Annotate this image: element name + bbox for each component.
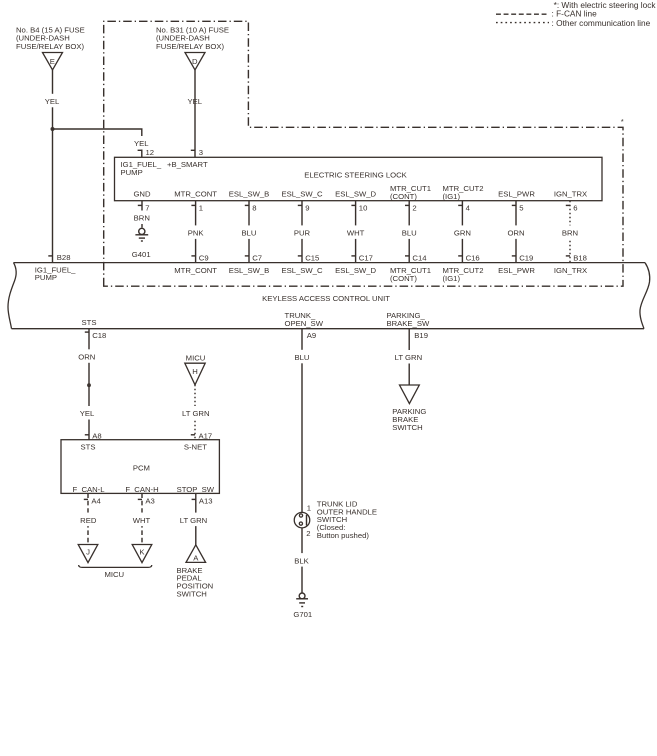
- svg-text:YEL: YEL: [45, 97, 60, 106]
- label PUR: [292, 225, 312, 239]
- connector triangle H: [185, 363, 205, 385]
- svg-text:GRN: GRN: [454, 229, 471, 238]
- keyless pin label TRUNK_OPEN_SW: [285, 311, 324, 328]
- svg-text:5: 5: [519, 203, 523, 212]
- keyless pin label MTR_CUT2 (IG1): [443, 266, 484, 283]
- svg-text:SWITCH: SWITCH: [177, 589, 207, 598]
- svg-text:(CONT): (CONT): [390, 192, 417, 201]
- label ORN: [77, 349, 98, 363]
- wire branch to ESL pin 12: [53, 129, 142, 157]
- connector C7 tick: [245, 255, 249, 257]
- svg-text:PUR: PUR: [294, 229, 311, 238]
- connector B18 tick: [566, 255, 570, 257]
- svg-text:MTR_CONT: MTR_CONT: [174, 189, 217, 198]
- svg-text:IGN_TRX: IGN_TRX: [554, 189, 587, 198]
- connector triangle K: [132, 545, 152, 563]
- wire F-CAN-L dashed A4 to J: [87, 493, 89, 544]
- svg-text:C17: C17: [359, 254, 373, 263]
- wire IGN_TRX pin 6 to B18 (dotted): [569, 201, 571, 263]
- wire STOP_SW A13 to brake pedal position switch: [195, 493, 197, 545]
- svg-text:B18: B18: [573, 254, 587, 263]
- connector A17 tick: [191, 434, 195, 436]
- wire GND pin 7: [141, 201, 143, 228]
- wire ESL_SW_B pin 8 to C7: [248, 201, 250, 263]
- svg-text:12: 12: [146, 148, 155, 157]
- svg-text:ESL_SW_B: ESL_SW_B: [229, 266, 270, 275]
- svg-text:BLU: BLU: [295, 353, 310, 362]
- svg-text:ESL_PWR: ESL_PWR: [498, 266, 535, 275]
- svg-text:KEYLESS ACCESS CONTROL UNIT: KEYLESS ACCESS CONTROL UNIT: [262, 294, 390, 303]
- label BLU: [400, 225, 418, 239]
- pin 4 tick: [458, 204, 462, 206]
- ground G401: [132, 228, 151, 259]
- svg-text:F_CAN-H: F_CAN-H: [125, 485, 158, 494]
- keyless box torn right edge: [640, 263, 650, 329]
- connector C17 tick: [351, 255, 355, 257]
- svg-text:10: 10: [359, 203, 368, 212]
- svg-text:BLU: BLU: [242, 229, 257, 238]
- svg-text:3: 3: [199, 148, 203, 157]
- label RED: [79, 513, 99, 527]
- connector triangle J: [78, 545, 98, 563]
- wire PARKING_BRAKE_SW B19 down: [408, 329, 410, 385]
- connector triangle A: [186, 545, 206, 563]
- label TRUNK LID OUTER HANDLE SWITCH: [317, 499, 377, 539]
- connector A13 tick: [192, 498, 196, 500]
- wire YEL from fuse D to ESL pin 3: [194, 70, 196, 157]
- splice dot: [87, 383, 91, 387]
- svg-text:C19: C19: [519, 254, 533, 263]
- svg-text:MICU: MICU: [104, 570, 124, 579]
- pin 9 tick: [298, 204, 302, 206]
- svg-text:B19: B19: [414, 331, 428, 340]
- op box: ELECTRIC STEERING LOCK unit: [115, 157, 603, 200]
- fuse E label: [16, 25, 85, 51]
- svg-text:(CONT): (CONT): [390, 274, 417, 283]
- svg-text:C9: C9: [199, 254, 209, 263]
- parking brake switch triangle: [400, 385, 420, 404]
- pin 8 tick: [245, 204, 249, 206]
- connector A4 tick: [84, 498, 88, 500]
- svg-text:2: 2: [306, 529, 310, 538]
- pin 1 tick: [191, 204, 195, 206]
- svg-text:F_CAN-L: F_CAN-L: [72, 485, 105, 494]
- svg-text:(IG1): (IG1): [443, 274, 461, 283]
- svg-text:STS: STS: [82, 318, 97, 327]
- svg-text:ELECTRIC STEERING LOCK: ELECTRIC STEERING LOCK: [304, 170, 407, 179]
- wire YEL from fuse E down to keyless B28: [52, 70, 54, 263]
- PCM box: [61, 440, 219, 494]
- svg-text:C14: C14: [412, 254, 427, 263]
- svg-text:YEL: YEL: [188, 97, 203, 106]
- svg-text:LT GRN: LT GRN: [182, 409, 209, 418]
- svg-text:K: K: [139, 548, 145, 557]
- svg-text:4: 4: [466, 203, 471, 212]
- svg-text:1: 1: [307, 503, 311, 512]
- svg-text:RED: RED: [80, 516, 97, 525]
- wire TRUNK_OPEN_SW A9 down to switch: [301, 329, 303, 513]
- svg-text:WHT: WHT: [347, 229, 365, 238]
- trunk lid outer handle switch: [294, 512, 310, 528]
- svg-text:STOP_SW: STOP_SW: [177, 485, 215, 494]
- svg-text:C15: C15: [305, 254, 319, 263]
- label YEL (fuse E wire): [43, 94, 61, 108]
- keyless box torn left edge: [8, 263, 16, 329]
- wire BLK from switch to G701: [301, 528, 303, 593]
- label YEL (branch wire): [132, 136, 150, 150]
- svg-text:: Other communication line: : Other communication line: [552, 18, 651, 28]
- svg-text:G401: G401: [132, 250, 151, 259]
- pin 3 tick: [191, 149, 195, 151]
- svg-text:SWITCH: SWITCH: [392, 423, 422, 432]
- keyless box bottom edge: [12, 328, 645, 330]
- pin 6 tick: [566, 204, 570, 206]
- svg-text:8: 8: [252, 203, 256, 212]
- wire STS C18 to PCM A8: [88, 329, 90, 440]
- svg-text:9: 9: [305, 203, 309, 212]
- label LT GRN: [178, 513, 209, 527]
- keyless pin label MTR_CUT1 (CONT): [390, 266, 431, 283]
- connector C14 tick: [405, 255, 409, 257]
- svg-text:BRAKE_SW: BRAKE_SW: [387, 319, 430, 328]
- label PNK: [186, 225, 205, 239]
- svg-text:D: D: [192, 57, 198, 66]
- label BLU: [240, 225, 258, 239]
- label GRN: [452, 225, 473, 239]
- svg-text:6: 6: [573, 203, 577, 212]
- svg-text:YEL: YEL: [134, 139, 149, 148]
- junction dot: [51, 127, 55, 131]
- svg-text:BRN: BRN: [562, 229, 578, 238]
- connector A8 tick: [85, 434, 89, 436]
- fuse E connector triangle: [43, 53, 63, 71]
- svg-text:PUMP: PUMP: [35, 273, 57, 282]
- connector C19 tick: [512, 255, 516, 257]
- svg-text:J: J: [86, 548, 90, 557]
- svg-text:IGN_TRX: IGN_TRX: [554, 266, 587, 275]
- svg-text:OPEN_SW: OPEN_SW: [285, 319, 324, 328]
- svg-text:PCM: PCM: [133, 464, 150, 473]
- svg-text:ESL_SW_D: ESL_SW_D: [335, 266, 376, 275]
- svg-text:MTR_CONT: MTR_CONT: [174, 266, 217, 275]
- label BRAKE PEDAL POSITION SWITCH: [177, 566, 214, 599]
- wire F-CAN-H dashed A3 to K: [141, 493, 143, 544]
- legend: F-CAN dashed sample: [496, 13, 549, 15]
- svg-text:Button pushed): Button pushed): [317, 531, 370, 540]
- svg-text:BLK: BLK: [294, 556, 309, 565]
- svg-text:(IG1): (IG1): [443, 192, 461, 201]
- svg-text:FUSE/RELAY BOX): FUSE/RELAY BOX): [16, 42, 85, 51]
- svg-text:ORN: ORN: [507, 229, 524, 238]
- fuse D connector triangle: [185, 53, 205, 71]
- label PARKING BRAKE SWITCH: [392, 407, 426, 432]
- label BLK: [293, 553, 311, 567]
- svg-text:BLU: BLU: [402, 229, 417, 238]
- pin 5 tick: [512, 204, 516, 206]
- svg-text:C16: C16: [466, 254, 480, 263]
- svg-text:ESL_PWR: ESL_PWR: [498, 189, 535, 198]
- svg-text:MICU: MICU: [186, 353, 206, 362]
- wire ESL_SW_C pin 9 to C15: [301, 201, 303, 263]
- wire S-NET dotted from H to PCM A17: [194, 385, 196, 440]
- legend: other communication dotted sample: [496, 22, 549, 24]
- svg-text:1: 1: [199, 203, 203, 212]
- pin 12 tick: [138, 149, 142, 151]
- ESL bottom pin name MTR_CUT2 (IG1): [443, 184, 484, 201]
- svg-text:ORN: ORN: [78, 353, 95, 362]
- pin 2 tick: [405, 204, 409, 206]
- fuse D label: [156, 25, 229, 51]
- svg-text:B28: B28: [57, 253, 71, 262]
- keyless pin label IG1_FUEL_PUMP: [35, 265, 76, 282]
- wire MTR_CUT1 pin 2 to C14: [408, 201, 410, 263]
- svg-text:A: A: [193, 554, 199, 563]
- svg-text:2: 2: [412, 203, 416, 212]
- connector C16 tick: [458, 255, 462, 257]
- keyless box top edge: [14, 262, 646, 264]
- svg-text:GND: GND: [133, 189, 151, 198]
- svg-text:ESL_SW_C: ESL_SW_C: [281, 266, 322, 275]
- connector C15 tick: [298, 255, 302, 257]
- label YEL: [78, 406, 96, 420]
- svg-text:LT GRN: LT GRN: [395, 353, 422, 362]
- label WHT: [345, 225, 366, 239]
- svg-text:E: E: [50, 57, 55, 66]
- svg-text:BRN: BRN: [134, 214, 150, 223]
- svg-text:FUSE/RELAY BOX): FUSE/RELAY BOX): [156, 42, 225, 51]
- svg-text:C18: C18: [92, 331, 106, 340]
- label BRN: [560, 225, 580, 239]
- label WHT: [131, 513, 152, 527]
- label BLU: [293, 350, 311, 364]
- svg-text:PUMP: PUMP: [121, 168, 143, 177]
- svg-text:A13: A13: [199, 496, 213, 505]
- svg-text:*: *: [621, 117, 624, 126]
- svg-text:STS: STS: [81, 443, 96, 452]
- label LT GRN: [393, 350, 424, 364]
- pin 7 tick: [138, 204, 142, 206]
- connector B28 tick: [48, 255, 52, 257]
- wire ESL_SW_D pin 10 to C17: [355, 201, 357, 263]
- svg-text:ESL_SW_B: ESL_SW_B: [229, 189, 270, 198]
- wire MTR_CONT pin 1 to C9: [195, 201, 197, 263]
- svg-text:ESL_SW_D: ESL_SW_D: [335, 189, 376, 198]
- MICU brace under J and K: [79, 565, 152, 567]
- pin 10 tick: [351, 204, 355, 206]
- ESL bottom pin name MTR_CUT1 (CONT): [390, 184, 431, 201]
- svg-text:G701: G701: [293, 610, 312, 619]
- label ORN: [506, 225, 527, 239]
- label BRN (GND wire): [132, 211, 152, 225]
- keyless pin label PARKING_BRAKE_SW: [387, 311, 430, 328]
- ground G701: [293, 593, 312, 619]
- dash-dot electric steering lock boundary: [104, 21, 623, 286]
- svg-text:YEL: YEL: [80, 409, 95, 418]
- connector C9 tick: [191, 255, 195, 257]
- svg-text:S-NET: S-NET: [184, 443, 207, 452]
- connector C18 tick: [85, 331, 89, 333]
- svg-text:C7: C7: [252, 254, 262, 263]
- label IG1_FUEL_PUMP (pin 12): [121, 160, 162, 177]
- wire MTR_CUT2 pin 4 to C16: [461, 201, 463, 263]
- label LT GRN: [180, 406, 211, 420]
- svg-text:A4: A4: [91, 496, 101, 505]
- svg-text:A9: A9: [307, 331, 316, 340]
- svg-text:LT GRN: LT GRN: [180, 516, 207, 525]
- wire ESL_PWR pin 5 to C19: [515, 201, 517, 263]
- svg-text:A3: A3: [145, 496, 154, 505]
- svg-text:WHT: WHT: [133, 516, 151, 525]
- svg-text:PNK: PNK: [188, 229, 205, 238]
- connector A3 tick: [138, 498, 142, 500]
- svg-text:+B_SMART: +B_SMART: [167, 160, 208, 169]
- svg-text:ESL_SW_C: ESL_SW_C: [281, 189, 322, 198]
- svg-text:H: H: [192, 367, 198, 376]
